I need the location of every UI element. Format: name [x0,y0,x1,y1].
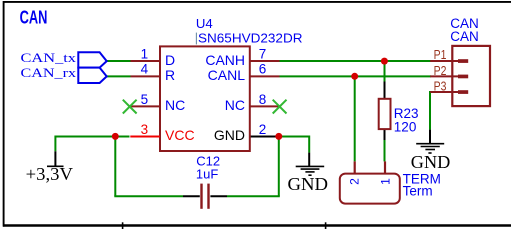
svg-text:CANL: CANL [208,67,246,83]
svg-text:2: 2 [348,178,362,185]
svg-text:CAN: CAN [20,7,48,28]
svg-text:P2: P2 [434,64,447,78]
svg-text:CANH: CANH [205,52,245,68]
svg-text:SN65HVD232DR: SN65HVD232DR [198,31,303,46]
svg-text:+3,3V: +3,3V [26,164,73,184]
svg-text:U4: U4 [196,16,213,31]
svg-text:D: D [165,52,175,68]
svg-text:CAN_rx: CAN_rx [21,65,77,80]
svg-text:R: R [165,67,175,83]
svg-text:3: 3 [141,122,149,137]
svg-text:GND: GND [411,152,451,172]
svg-text:5: 5 [141,92,149,107]
svg-text:8: 8 [259,92,267,107]
svg-text:GND: GND [214,127,245,143]
svg-text:Term: Term [403,184,433,199]
svg-text:P1: P1 [434,48,447,62]
svg-text:CAN_tx: CAN_tx [21,50,77,65]
svg-text:1: 1 [141,46,149,61]
svg-text:CAN: CAN [450,29,479,44]
svg-text:P3: P3 [434,80,447,94]
svg-text:VCC: VCC [165,127,195,143]
svg-text:120: 120 [394,120,417,135]
svg-text:NC: NC [165,97,185,113]
svg-text:4: 4 [141,62,149,77]
svg-text:NC: NC [225,97,245,113]
svg-text:6: 6 [259,62,267,77]
svg-text:1: 1 [379,178,393,185]
svg-text:1uF: 1uF [196,166,218,181]
svg-text:7: 7 [259,46,267,61]
svg-text:2: 2 [259,122,267,137]
svg-text:GND: GND [288,174,329,194]
